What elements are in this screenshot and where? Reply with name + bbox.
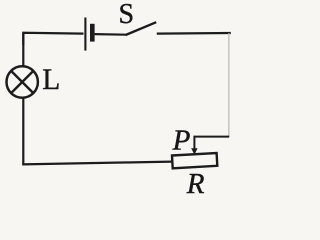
wire right vertical (faint in scan) xyxy=(228,33,230,137)
slider arrowhead onto rheostat xyxy=(191,148,197,154)
svg-text:L: L xyxy=(42,64,60,96)
wire battery to switch pivot xyxy=(95,33,127,36)
lamp L circle xyxy=(7,66,38,97)
switch S open blade xyxy=(126,22,157,35)
wire switch contact to top-right corner xyxy=(157,32,231,35)
svg-text:R: R xyxy=(186,168,205,200)
battery (cell) short thick negative plate xyxy=(90,24,95,42)
wire top-left (node from lamp to battery) xyxy=(23,33,83,45)
wire from right side to slider P xyxy=(194,137,229,150)
rheostat R body rectangle xyxy=(172,153,217,168)
left vertical wire below lamp xyxy=(22,98,24,165)
lamp L cross diagonal 1 xyxy=(11,71,33,93)
svg-text:S: S xyxy=(119,0,135,30)
lamp L cross diagonal 2 xyxy=(11,71,33,93)
battery (cell) long positive plate xyxy=(84,18,86,51)
bottom wire from lamp branch to rheostat left terminal xyxy=(22,162,172,165)
left vertical wire above lamp xyxy=(22,33,24,67)
svg-text:P: P xyxy=(172,125,191,157)
